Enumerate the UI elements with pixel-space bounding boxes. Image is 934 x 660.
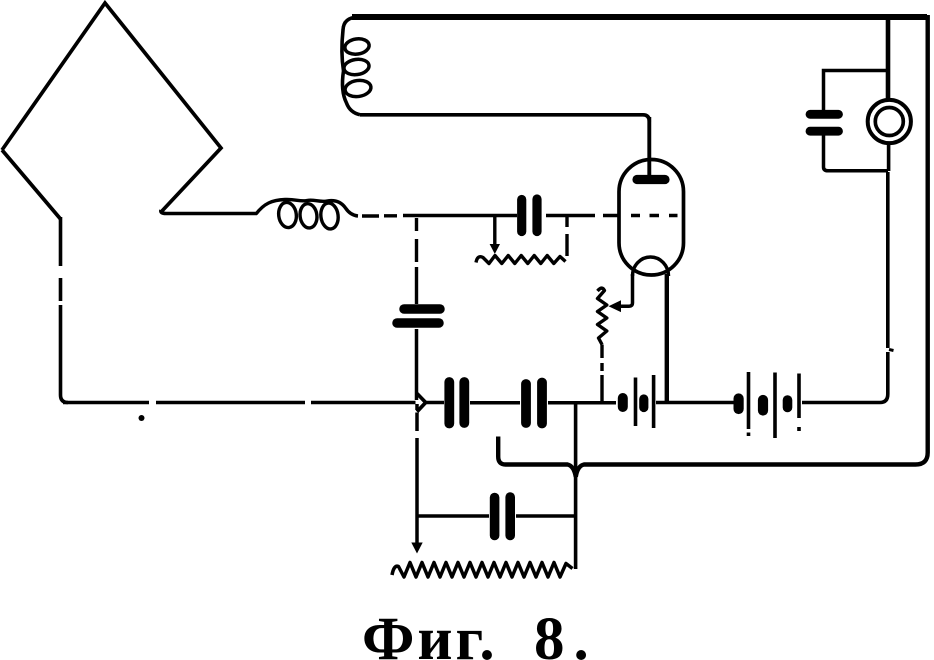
wire: right edge down + brace return line with hop at x=576 and left stub <box>498 15 928 477</box>
arrow head of wiper onto potentiometer R1 <box>490 244 500 254</box>
capacitor C5 bottom plate <box>810 127 839 136</box>
triode V1 envelope <box>619 160 684 276</box>
wire: antenna left leg down (dashed) <box>61 217 69 403</box>
wire: C3 to battery B1 <box>548 401 616 405</box>
wire: filament left leg <box>621 274 633 306</box>
wire: drop from main line through hop to pot right end <box>574 403 578 569</box>
potentiometer R1 (grid leak zigzag) <box>476 256 566 264</box>
inductor L2 loop 3 <box>344 79 372 98</box>
inductor L1 loop 1 <box>277 201 298 228</box>
wire: R2 down to main line (lightly broken) <box>600 345 603 402</box>
wire: phone cap branch top <box>824 71 888 111</box>
svg-text:Фиг.: Фиг. <box>362 606 498 660</box>
wire: right riser to phones (small break) <box>886 172 890 348</box>
junction arrow (chevron on main line at tuning-cap node) <box>417 394 426 412</box>
antenna loop (kite outline) <box>2 3 221 219</box>
inductor L2 loop 1 <box>344 37 370 55</box>
wire: main bottom line (left section, lightly broken) <box>63 401 416 405</box>
battery B1 cell1 long plate <box>634 378 638 427</box>
battery B1 cell2 long plate <box>652 375 656 428</box>
wire: phone cap branch bottom <box>824 136 889 171</box>
battery B2 cell2 short plate <box>758 400 768 411</box>
headphone T1 outer ring <box>868 100 911 143</box>
capacitor C5 (across phones) top plate <box>810 110 839 119</box>
battery B2 cell3 long plate <box>797 374 801 432</box>
wire: dashed drop from tee toward tuning capacitor <box>415 218 418 304</box>
inductor L1 loop 3 <box>319 202 339 230</box>
battery B2 cell2 long plate <box>773 373 777 439</box>
wire: L2 bottom line to anode lead <box>360 115 649 122</box>
wire: B1 to B2 <box>656 401 736 405</box>
wire: lower cap line <box>417 514 575 518</box>
wire: C4 to tube grid <box>546 214 619 218</box>
rheostat R2 (filament, vertical zigzag) <box>598 288 607 344</box>
battery B1 cell1 short plate <box>618 398 628 407</box>
triode V1 grid (dashed) <box>631 214 678 218</box>
capacitor C6 (lower coupling cap) <box>490 498 500 536</box>
capacitor C2 (left blocking cap on main line) <box>444 382 454 424</box>
triode V1 anode lead <box>647 117 651 177</box>
battery B2 cell3 short plate <box>783 400 793 408</box>
wire: wiper drop from grid line <box>493 217 496 245</box>
node T: grid line tee at x=416 <box>403 214 517 218</box>
wire: top feed line <box>352 14 927 20</box>
battery B2 cell1 long plate <box>747 372 751 436</box>
arrow head of wiper onto potentiometer R3 <box>411 543 422 554</box>
ink dot artifact <box>139 415 145 421</box>
triode V1 anode plate <box>637 175 665 184</box>
grid capacitor C4 <box>517 200 526 232</box>
wire: tuning cap to main bottom line <box>415 329 419 400</box>
inductor L2 loop 2 <box>343 58 370 77</box>
wire: dashed drop from main line to pot wiper arrow <box>415 404 419 543</box>
inductor L1 loop 2 <box>299 203 319 229</box>
wire: R1 right end up to grid-side node <box>565 217 568 256</box>
svg-text:8.: 8. <box>534 606 598 660</box>
wire: between C2 and C3 <box>470 401 520 405</box>
inductor L2 (plate coil) left edge <box>342 17 360 115</box>
battery B2 cell1 short plate <box>733 399 743 410</box>
capacitor C1 (tuning, thick horizontal plates) <box>404 304 440 314</box>
potentiometer R3 (big zigzag) <box>392 563 573 578</box>
wire: phone bottom to lower rail <box>887 144 891 172</box>
wire: phone branch upper riser <box>886 20 891 99</box>
triode V1 filament dome <box>633 257 669 276</box>
wire: B2 to right riser with corner <box>802 352 888 403</box>
capacitor C3 (right blocking cap on main line) <box>521 384 531 423</box>
headphone T1 inner ring <box>875 108 903 136</box>
inductor L1 (antenna series coil) top curve <box>256 199 358 216</box>
wire: antenna notch to coil L1 <box>161 210 257 214</box>
battery B1 cell2 short plate <box>639 399 648 408</box>
wire: filament right leg down to battery node <box>665 274 669 401</box>
wire: dashed link coil L1 to grid node <box>362 214 397 218</box>
arrow head of filament wiper onto rheostat R2 <box>609 300 622 312</box>
